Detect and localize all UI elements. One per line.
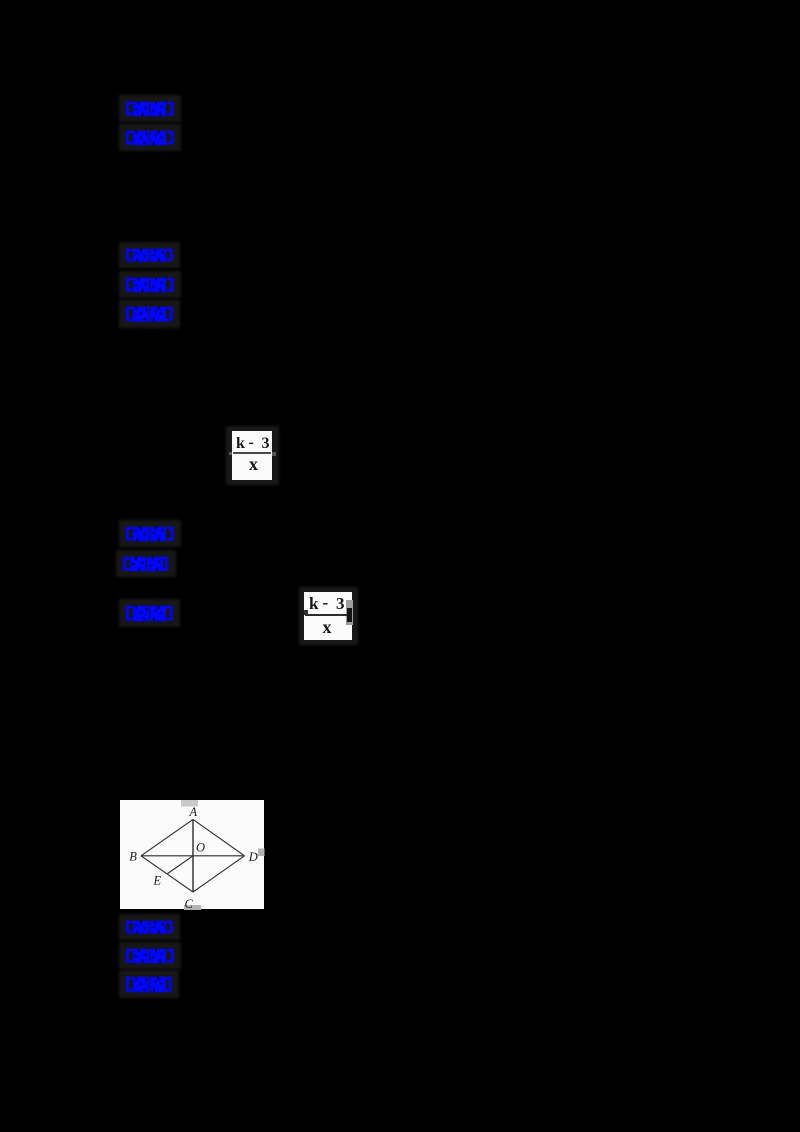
- svg-text:C: C: [184, 897, 193, 910]
- formula image 1: fraction (k-3)/x: [226, 426, 279, 485]
- geometry figure: rhombus ABCD with diagonals, point E midpoint of BC: [120, 800, 265, 910]
- diagonal AC: [192, 819, 194, 892]
- svg-text:E: E: [152, 873, 161, 887]
- diagonal BD: [141, 854, 245, 856]
- segment EO: [167, 855, 193, 873]
- label C1 点评: [119, 520, 181, 547]
- label D3 解答: [119, 970, 179, 998]
- label A2 解答: [119, 124, 181, 151]
- gray smudge right edge near D: [258, 848, 265, 856]
- label D2 分析: [119, 942, 181, 969]
- side AB: [141, 819, 193, 855]
- svg-text:D: D: [247, 850, 257, 864]
- svg-text:B: B: [129, 849, 137, 863]
- side AD: [193, 819, 245, 855]
- side BC: [141, 855, 193, 891]
- svg-text:O: O: [196, 840, 205, 854]
- gray smudge below C: [184, 905, 201, 910]
- label B2 分析: [119, 271, 181, 298]
- label B1 考点: [119, 242, 180, 268]
- label C2 考点: [116, 550, 176, 577]
- svg-text:A: A: [188, 804, 197, 818]
- label A1 分析: [119, 95, 181, 122]
- label B3 解答: [119, 300, 180, 328]
- side CD: [193, 855, 245, 891]
- formula image 2: fraction (k-3)/x with trailing comma artifact: [299, 587, 358, 645]
- gray smudge above A: [181, 800, 198, 807]
- label C3 分析: [119, 599, 180, 627]
- label D1 考点: [119, 914, 180, 940]
